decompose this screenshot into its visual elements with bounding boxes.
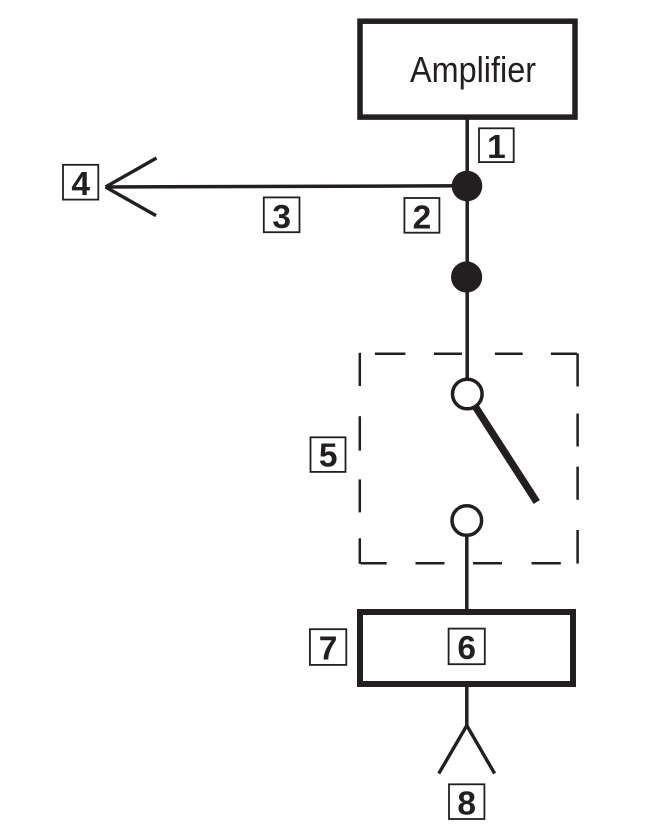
label 5 [311, 437, 346, 474]
arrowhead 4 [106, 158, 157, 216]
wire tuner box to antenna [465, 686, 469, 727]
label 6 [449, 629, 485, 667]
antenna 8 [439, 726, 495, 774]
switch contact bottom [452, 506, 482, 536]
wire switch to tuner box [465, 536, 469, 610]
label 3 [264, 197, 300, 235]
top edge dashes [375, 353, 406, 356]
amplifier box [360, 21, 575, 117]
label 8 [449, 784, 484, 822]
svg-text:8: 8 [457, 786, 476, 823]
dashed enclosure 5 [360, 353, 578, 564]
label 7 [310, 629, 346, 667]
junction dot 1 [452, 171, 483, 202]
bottom edge dashes [361, 562, 387, 565]
label 2 [404, 198, 439, 236]
svg-text:6: 6 [457, 630, 476, 667]
switch contact top [453, 379, 483, 409]
label 1 [479, 128, 514, 166]
right edge dashes [576, 354, 579, 387]
svg-text:Amplifier: Amplifier [410, 49, 536, 90]
tuner box 6/7 [360, 612, 573, 684]
svg-text:3: 3 [272, 199, 291, 236]
svg-text:2: 2 [413, 199, 432, 236]
junction dot 2 [451, 261, 482, 292]
label 4 [63, 165, 98, 203]
wire horizontal to arrow [106, 186, 466, 187]
svg-text:1: 1 [487, 129, 506, 166]
svg-text:4: 4 [71, 166, 90, 203]
svg-text:7: 7 [319, 630, 338, 667]
svg-text:5: 5 [319, 438, 338, 475]
left edge dashes [359, 353, 362, 386]
switch arm [475, 406, 537, 502]
wire amplifier to switch [465, 117, 469, 380]
